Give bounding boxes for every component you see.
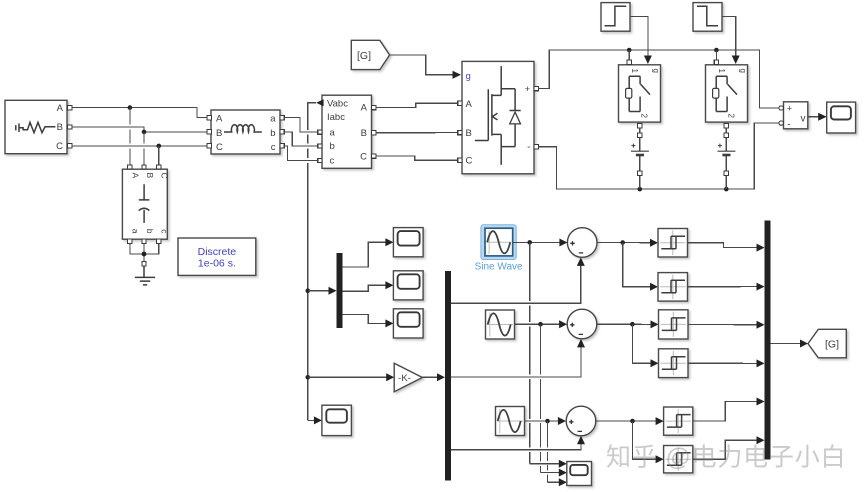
breaker2 port 2 <box>724 124 728 128</box>
universal bridge IGBT block <box>462 61 534 173</box>
breaker2 port 1 <box>714 60 718 64</box>
svg-text:c: c <box>271 142 276 153</box>
scope block Uc <box>393 309 423 338</box>
cap bank port B <box>142 165 146 169</box>
svg-text:C: C <box>216 142 223 153</box>
svg-text:b: b <box>145 229 155 234</box>
wire sine3 to sum3 <box>525 417 566 425</box>
wire gain to demux2 <box>422 373 445 381</box>
breaker block Breaker1 <box>619 65 661 122</box>
relay block 3 <box>659 310 689 339</box>
source port C <box>68 144 72 148</box>
breaker1 port 1 <box>627 60 631 64</box>
cap bank port C <box>157 165 161 169</box>
inductor port c <box>280 144 284 148</box>
wire sine1 down to scope6 <box>530 242 562 463</box>
svg-text:1e-06 s.: 1e-06 s. <box>198 258 236 270</box>
wire sum1 branch to relay2 <box>623 243 658 291</box>
svg-text:[G]: [G] <box>825 338 839 350</box>
DC source battery 1 <box>631 128 649 189</box>
wire sum1 to relay1 <box>597 239 658 247</box>
svg-text:Vabc: Vabc <box>327 99 348 110</box>
svg-text:Iabc: Iabc <box>327 112 345 123</box>
scope block bottom (references) <box>567 462 592 486</box>
wire sum2 to relay3 <box>597 320 659 328</box>
relay block 1 <box>658 229 688 258</box>
wire sine2 down to scope6 <box>541 324 563 472</box>
svg-text:1: 1 <box>630 69 639 74</box>
breaker1 port 2 <box>638 124 642 128</box>
wire inductor b to measurement b <box>284 132 318 146</box>
wire relay3 to mux <box>688 321 765 329</box>
wire relay5 to mux <box>693 398 765 422</box>
svg-text:Sine Wave: Sine Wave <box>475 262 523 273</box>
bridge port A <box>458 101 462 105</box>
svg-text:g: g <box>739 69 748 73</box>
svg-text:a: a <box>270 114 276 125</box>
sine wave block 3 <box>496 407 525 436</box>
sine wave block 1 <box>485 228 513 256</box>
wire measurement A to bridge A <box>376 103 458 107</box>
inductor port a <box>280 115 284 119</box>
relay block 2 <box>658 273 688 302</box>
wire relay4 to mux <box>688 359 765 367</box>
wire phase B drop to cap bank <box>143 132 145 165</box>
scope block Ua <box>393 228 423 257</box>
svg-text:A: A <box>216 114 223 125</box>
wire sine3 down to scope6 <box>548 421 563 482</box>
wire bridge plus to breakers and voltmeter <box>538 48 779 108</box>
svg-text:-: - <box>527 142 530 153</box>
scope block bottom left <box>322 405 352 435</box>
powergui block Discrete <box>178 238 256 275</box>
svg-text:g: g <box>652 69 661 73</box>
svg-text:B: B <box>57 122 63 133</box>
sum block 2 <box>567 309 597 339</box>
three-phase source block <box>5 100 67 153</box>
wire step2 to breaker2 gate <box>722 17 740 65</box>
svg-text:g: g <box>466 71 471 82</box>
step block Step <box>601 3 630 32</box>
wire measurement C to bridge C <box>376 156 458 160</box>
inductor port B <box>207 130 211 134</box>
measurement Vabc output arrow <box>316 99 323 106</box>
svg-text:v: v <box>801 114 806 125</box>
wire demux out1 to scope <box>343 238 394 267</box>
cap bank port b <box>142 239 146 243</box>
svg-text:A: A <box>361 103 368 114</box>
arrow sine1 into scope6 <box>559 460 567 468</box>
cap bank port c <box>157 239 161 243</box>
svg-text:1: 1 <box>717 69 726 74</box>
source port A <box>68 105 72 109</box>
wire bridge minus to battery bus and voltmeter <box>538 123 779 191</box>
sine wave block 1 selected highlight <box>481 225 516 260</box>
ground block port <box>142 262 146 266</box>
wire Vabc to demux <box>308 287 337 295</box>
svg-text:A: A <box>131 173 141 179</box>
wire Vabc to scope5 (bottom left) <box>0 0 1 1</box>
DC source battery 2 <box>718 128 736 189</box>
bridge port minus <box>534 145 538 149</box>
step block Step1 <box>693 3 722 32</box>
From tag [G] <box>351 40 389 69</box>
cap bank port A <box>128 165 132 169</box>
inductor port C <box>207 144 211 148</box>
wire phase A source to inductor <box>72 105 207 117</box>
breaker block Breaker2 <box>706 65 748 122</box>
arrow sine3 into scope6 <box>559 478 567 486</box>
relay block 4 <box>659 349 689 378</box>
demux for scopes <box>337 253 343 328</box>
svg-text:b: b <box>330 141 335 152</box>
relay block 5 <box>664 407 693 435</box>
wire voltmeter to scope <box>808 113 827 121</box>
svg-text:-K-: -K- <box>398 373 411 384</box>
wire relay6 to mux <box>693 436 765 459</box>
svg-text:B: B <box>145 173 155 179</box>
wire demux2 out2 to sum2 <box>451 339 585 377</box>
wire measurement B to bridge B <box>376 132 458 134</box>
wire demux out3 to scope <box>343 315 394 328</box>
wire mux to Goto tag <box>771 340 809 348</box>
voltmeter port plus <box>779 106 783 110</box>
bridge port plus <box>534 86 538 90</box>
svg-text:a: a <box>330 127 336 138</box>
mux block <box>765 221 771 460</box>
sum block 3 <box>566 406 596 436</box>
svg-text:知乎 @电力电子小白: 知乎 @电力电子小白 <box>606 444 846 472</box>
wire Vabc to gain <box>308 373 394 381</box>
scope block top right <box>827 102 856 133</box>
svg-text:-: - <box>787 119 790 130</box>
measurement port A <box>372 105 376 109</box>
svg-text:B: B <box>466 128 472 139</box>
svg-text:B: B <box>216 128 222 139</box>
wire relay2 to mux <box>688 283 765 291</box>
wire inductor a to measurement a <box>284 118 318 133</box>
wire From tag to bridge gate <box>390 55 461 79</box>
wire phase A drop to cap bank <box>129 108 131 165</box>
wire bus to breaker1 port 1 <box>628 50 630 60</box>
voltmeter port minus <box>779 121 783 125</box>
svg-text:+: + <box>787 104 792 114</box>
scope block Ub <box>393 271 423 300</box>
wire step1 to breaker1 gate <box>630 17 652 65</box>
measurement port C <box>372 154 376 158</box>
svg-text:C: C <box>56 141 63 152</box>
demux2 (three-phase split) <box>445 271 451 481</box>
voltage measurement block <box>784 102 808 131</box>
arrow sine2 into scope6 <box>559 469 567 477</box>
svg-text:C: C <box>160 173 170 179</box>
svg-text:A: A <box>466 99 473 110</box>
wire cap bank to ground junction <box>130 244 159 262</box>
ground symbol <box>135 266 155 285</box>
svg-text:a: a <box>131 229 141 234</box>
svg-text:C: C <box>360 151 367 162</box>
wire Vabc down to lower section <box>306 103 322 425</box>
source port B <box>68 125 72 129</box>
wire demux out2 to scope <box>343 281 394 291</box>
relay block 6 <box>664 446 693 473</box>
wire inductor c to measurement c <box>284 146 318 161</box>
svg-text:Discrete: Discrete <box>198 246 237 258</box>
wire sine1 to sum1 <box>513 239 568 247</box>
wire sum2 branch to relay4 <box>632 324 658 367</box>
three-phase VI measurement block <box>322 95 372 168</box>
wire sum3 branch to relay6 <box>633 421 664 463</box>
svg-text:A: A <box>57 103 64 114</box>
wire phase C source to inductor <box>72 144 207 149</box>
wire sum3 to relay5 <box>596 417 664 425</box>
inductor port A <box>207 115 211 119</box>
wire phase C drop to cap bank <box>158 146 160 165</box>
wire demux2 out3 to sum3 <box>451 436 585 450</box>
measurement port c <box>318 158 322 162</box>
svg-text:+: + <box>525 84 530 94</box>
wire demux2 out1 to sum1 <box>451 257 585 303</box>
measurement port b <box>318 144 322 148</box>
bridge port B <box>458 130 462 134</box>
measurement port a <box>318 130 322 134</box>
measurement port B <box>372 131 376 135</box>
svg-text:c: c <box>330 156 335 167</box>
three-phase inductor block <box>211 110 280 154</box>
wire relay1 to mux <box>688 243 765 252</box>
svg-text:2: 2 <box>727 114 736 119</box>
sine wave block 2 <box>486 310 515 339</box>
svg-text:C: C <box>466 156 473 167</box>
svg-text:b: b <box>270 128 275 139</box>
bridge port C <box>458 158 462 162</box>
wire sine2 to sum2 <box>515 320 568 328</box>
cap bank port a <box>128 239 132 243</box>
svg-text:2: 2 <box>640 114 649 119</box>
svg-text:[G]: [G] <box>357 50 371 62</box>
gain block -K- <box>394 363 422 391</box>
wire phase B source to inductor <box>72 127 207 134</box>
wire bus to breaker2 port 1 <box>715 50 717 60</box>
svg-text:B: B <box>361 128 367 139</box>
sum block 1 <box>567 228 597 258</box>
three-phase capacitor bank block <box>122 169 169 239</box>
Goto tag [G] <box>808 329 846 358</box>
inductor port b <box>280 130 284 134</box>
